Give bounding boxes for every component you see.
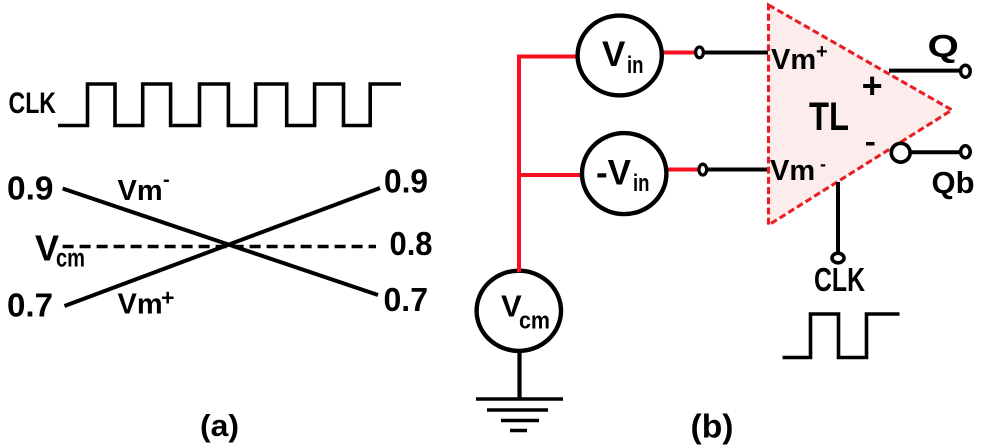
svg-text:Qb: Qb <box>932 165 975 200</box>
pin label Vm+ <box>771 41 828 76</box>
terminal node Q <box>961 65 971 77</box>
label Vm+ (panel a) <box>118 285 175 321</box>
wire red Vin output <box>660 51 697 55</box>
wire red -Vin output <box>664 168 700 172</box>
svg-text:0.7: 0.7 <box>384 281 429 318</box>
svg-text:TL: TL <box>809 95 849 139</box>
comparator TL (red dashed triangle) <box>769 5 953 225</box>
wire red vertical bus <box>517 55 521 267</box>
terminal node Qb <box>961 146 971 158</box>
CLK mini waveform (panel b) <box>783 314 900 358</box>
svg-text:+: + <box>161 285 174 311</box>
svg-text:Vm: Vm <box>118 289 163 321</box>
terminal node CLK <box>832 253 844 263</box>
svg-text:Vm: Vm <box>770 155 815 187</box>
wire red joint into Vcm top <box>517 250 521 272</box>
svg-text:0.9: 0.9 <box>7 170 54 207</box>
label - (inverting output) <box>866 142 875 146</box>
svg-text:Vm: Vm <box>771 44 816 76</box>
svg-text:0.7: 0.7 <box>7 287 53 324</box>
wire red top horizontal to Vin <box>517 55 578 59</box>
svg-text:(a): (a) <box>200 408 239 443</box>
svg-text:(b): (b) <box>691 408 734 445</box>
svg-text:CLK: CLK <box>814 261 865 298</box>
CLK waveform (panel a) <box>58 84 401 126</box>
svg-text:+: + <box>862 65 883 106</box>
node Vcm dashed level line <box>63 245 376 249</box>
svg-text:Vm: Vm <box>118 175 163 207</box>
ground <box>476 399 563 431</box>
source Vcm <box>477 271 561 351</box>
svg-text:-: - <box>163 169 170 191</box>
svg-text:-V: -V <box>596 153 632 192</box>
wire red middle horizontal to -Vin <box>517 173 582 177</box>
svg-text:cm: cm <box>519 308 550 335</box>
svg-text:CLK: CLK <box>9 87 57 120</box>
svg-text:V: V <box>602 35 626 74</box>
wire Q output <box>889 69 960 73</box>
inverting bubble on Qb <box>891 143 910 162</box>
wire CLK stem <box>836 182 840 252</box>
svg-text:0.9: 0.9 <box>384 163 428 200</box>
wire Vcm to ground <box>517 351 521 399</box>
wire black to Vm- input <box>707 168 768 172</box>
svg-text:Q: Q <box>928 28 959 64</box>
svg-text:in: in <box>627 52 644 79</box>
svg-text:-: - <box>820 154 826 174</box>
wire black to Vm+ input <box>704 51 768 55</box>
terminal node -Vin output <box>699 164 707 175</box>
label Vcm (panel a) <box>35 228 85 273</box>
source Vin <box>578 16 662 96</box>
trace Vm- falling line <box>63 189 378 296</box>
svg-text:in: in <box>633 170 650 197</box>
terminal node Vin output <box>696 47 704 58</box>
pin label Vm- <box>770 154 826 187</box>
svg-text:cm: cm <box>56 242 85 272</box>
svg-text:+: + <box>816 41 828 63</box>
source -Vin <box>582 133 666 214</box>
wire Qb output <box>910 150 960 154</box>
label Vm- (panel a) <box>118 169 170 207</box>
trace Vm+ rising line <box>65 188 381 306</box>
svg-text:0.8: 0.8 <box>390 225 433 262</box>
